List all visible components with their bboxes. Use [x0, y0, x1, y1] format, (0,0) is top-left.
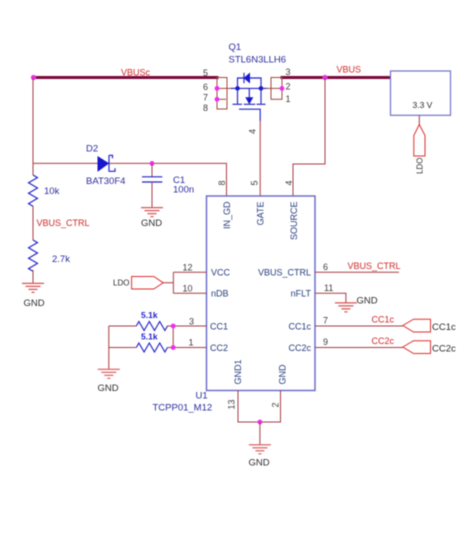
svg-text:U1: U1	[196, 391, 208, 402]
svg-text:6: 6	[203, 82, 208, 92]
svg-text:CC1: CC1	[210, 322, 228, 332]
svg-text:3.3 V: 3.3 V	[413, 100, 433, 110]
svg-text:2.7k: 2.7k	[52, 254, 70, 265]
svg-text:D2: D2	[86, 144, 98, 155]
svg-text:VBUS_CTRL: VBUS_CTRL	[37, 218, 90, 228]
svg-text:9: 9	[323, 337, 328, 347]
svg-text:CC1c: CC1c	[372, 315, 395, 325]
node junction CC1	[171, 324, 176, 329]
svg-text:GND: GND	[24, 298, 45, 309]
body diode cathode bar	[243, 73, 245, 83]
svg-text:7: 7	[323, 316, 328, 326]
diode D2	[98, 155, 115, 171]
wire GND1 and GND pins to ground	[238, 391, 281, 423]
svg-text:12: 12	[183, 263, 193, 273]
channel horizontal	[238, 87, 262, 89]
wire nFLT pin11 to ground	[315, 293, 346, 302]
svg-text:2: 2	[286, 82, 291, 92]
svg-text:SOURCE: SOURCE	[289, 202, 299, 241]
svg-text:CC1c: CC1c	[432, 322, 456, 333]
svg-text:Q1: Q1	[229, 42, 242, 53]
ground below C1	[141, 208, 163, 229]
wire 2.7k to ground	[32, 270, 34, 283]
node blue right	[259, 86, 264, 91]
wire drain stub	[227, 87, 232, 89]
resistor 5.1k upper	[136, 322, 167, 331]
svg-text:GND: GND	[98, 383, 119, 394]
node junction Q1 pin2	[280, 86, 285, 91]
svg-text:GND1: GND1	[233, 359, 243, 384]
svg-text:6: 6	[323, 262, 328, 272]
channel bar right	[257, 103, 266, 105]
svg-text:10k: 10k	[44, 186, 60, 197]
block 3.3V box	[391, 71, 451, 115]
svg-text:7: 7	[203, 93, 208, 103]
wire VBUS thick bus right segment	[281, 76, 391, 79]
svg-text:100n: 100n	[173, 185, 194, 196]
svg-text:CC2: CC2	[210, 343, 228, 353]
node junction Q1 pin6	[215, 86, 220, 91]
svg-text:LDO: LDO	[113, 279, 129, 288]
body diode triangle	[244, 73, 249, 82]
svg-text:8: 8	[203, 103, 208, 113]
svg-text:5.1k: 5.1k	[141, 310, 158, 320]
svg-text:2: 2	[271, 402, 281, 407]
ground below CC ladder	[98, 369, 120, 394]
connector CC2c	[403, 341, 431, 354]
node junction CC2	[171, 345, 176, 350]
wire junction to ground	[259, 422, 261, 445]
svg-text:GND: GND	[357, 296, 378, 307]
svg-text:CC2c: CC2c	[432, 344, 456, 355]
svg-text:VBUSc: VBUSc	[121, 68, 151, 78]
svg-text:1: 1	[286, 94, 291, 104]
wire gate to IC GATE pin	[259, 120, 261, 196]
svg-text:13: 13	[227, 399, 237, 409]
svg-text:IN_GD: IN_GD	[222, 201, 232, 229]
wire joining CC nodes	[172, 326, 174, 348]
svg-text:STL6N3LLH6: STL6N3LLH6	[229, 55, 287, 66]
svg-text:3: 3	[189, 317, 194, 327]
svg-text:CC2c: CC2c	[288, 343, 311, 353]
wire VBUS to SOURCE pin	[293, 78, 325, 197]
svg-text:5: 5	[250, 180, 260, 185]
gate bar and gate wire	[239, 109, 260, 121]
wire D2 row horizontal	[33, 162, 98, 164]
body diode top path	[238, 78, 262, 88]
svg-text:BAT30F4: BAT30F4	[86, 176, 125, 187]
svg-text:5: 5	[203, 68, 208, 78]
svg-text:VCC: VCC	[211, 268, 231, 278]
wire VBUSc thick bus left segment	[33, 76, 219, 79]
wire 5.1k to CC1 pin	[167, 325, 207, 327]
drain vertical to channel	[237, 88, 239, 103]
ground nFLT	[335, 296, 378, 312]
node junction top-left	[31, 75, 36, 80]
wire D2 cathode to C1 to IC pin8	[109, 163, 227, 196]
resistor 5.1k lower	[136, 343, 167, 352]
svg-text:nFLT: nFLT	[291, 289, 312, 299]
svg-text:1: 1	[189, 338, 194, 348]
svg-text:VBUS_CTRL: VBUS_CTRL	[348, 261, 401, 271]
node junction Q1 pin7	[215, 97, 220, 102]
svg-text:VBUS_CTRL: VBUS_CTRL	[258, 268, 311, 278]
svg-text:4: 4	[248, 129, 258, 134]
wire source stub right	[261, 87, 267, 89]
svg-text:4: 4	[284, 180, 294, 185]
svg-text:CC2c: CC2c	[372, 336, 395, 346]
wire LDO to VCC/nDB bracket	[163, 272, 206, 293]
svg-text:GND: GND	[141, 218, 162, 229]
source vertical to channel	[260, 88, 262, 103]
transistor Q1 mosfet symbol	[227, 73, 271, 121]
svg-text:8: 8	[217, 180, 227, 185]
capacitor C1	[142, 163, 162, 207]
svg-text:GATE: GATE	[256, 202, 266, 226]
ground below 2.7k	[22, 283, 45, 309]
wire 3.3V box to LDO connector	[418, 115, 420, 125]
svg-text:nDB: nDB	[211, 289, 229, 299]
resistor 10k	[29, 175, 38, 206]
connector CC1c	[403, 319, 431, 332]
wire between 10k and 2.7k	[32, 206, 34, 240]
svg-text:GND: GND	[249, 458, 270, 469]
wire CC ladder left side to ground	[109, 326, 137, 369]
node blue left	[235, 86, 240, 91]
svg-text:GND: GND	[278, 364, 288, 385]
source arrow vertical	[248, 88, 250, 97]
ground below U1	[249, 445, 271, 469]
resistor 2.7k	[29, 240, 38, 271]
svg-text:LDO: LDO	[416, 157, 425, 173]
svg-text:3: 3	[286, 67, 291, 77]
svg-text:10: 10	[183, 284, 193, 294]
svg-text:5.1k: 5.1k	[141, 332, 158, 342]
svg-text:11: 11	[324, 283, 333, 293]
wire CC1c pin7	[315, 325, 403, 327]
channel bar left	[233, 103, 243, 105]
svg-text:VBUS: VBUS	[337, 65, 362, 75]
node junction GND	[258, 420, 263, 425]
wire left rail vertical	[32, 78, 34, 176]
node junction VBUS	[322, 75, 327, 80]
svg-text:CC1c: CC1c	[288, 322, 311, 332]
connector LDO right (pointing up)	[414, 125, 425, 157]
svg-text:TCPP01_M12: TCPP01_M12	[153, 403, 213, 414]
wire CC2c pin9	[315, 347, 403, 349]
connector LDO left (pointing right)	[132, 277, 164, 290]
channel bar middle	[244, 103, 256, 105]
transistor Q1 right pin bracket pins 1-3	[271, 78, 282, 100]
transistor Q1 left pin bracket pins 5-8	[217, 78, 227, 110]
source arrow head	[246, 98, 253, 104]
wire 5.1k to CC2 pin	[167, 347, 207, 349]
node junction C1	[150, 161, 155, 166]
IC U1 body	[207, 196, 316, 391]
wire VBUS_CTRL pin6	[315, 271, 399, 273]
